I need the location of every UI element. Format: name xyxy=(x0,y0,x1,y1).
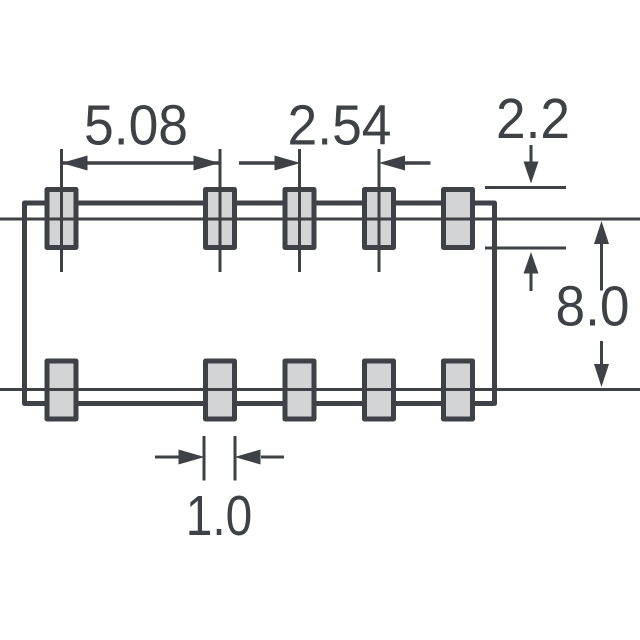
dimension 5.08 line with arrows xyxy=(62,156,221,171)
pad P4 (top row) xyxy=(365,190,394,248)
dimension 1.0 left tick xyxy=(203,436,206,481)
pad P8 (bottom row) xyxy=(285,361,314,419)
dimension 2.2 up arrow xyxy=(524,252,539,291)
pad P10 (bottom row) xyxy=(444,361,473,419)
svg-text:8.0: 8.0 xyxy=(556,275,630,338)
dimension 8.0 down arrow xyxy=(594,341,609,387)
pad P1 (top row) xyxy=(47,190,76,248)
extension line pad P2 center xyxy=(219,149,222,272)
svg-text:1.0: 1.0 xyxy=(186,484,253,547)
dimension 1.0 left arrow xyxy=(155,450,205,465)
svg-text:2.2: 2.2 xyxy=(496,87,570,150)
dimension 2.2 top reference line xyxy=(485,186,566,189)
dimension 2.2 down arrow xyxy=(524,145,539,184)
pad P7 (bottom row) xyxy=(206,361,235,419)
dimension 2.54 left arrow xyxy=(239,156,301,171)
pad P2 (top row) xyxy=(206,190,235,248)
svg-text:2.54: 2.54 xyxy=(288,94,392,157)
dimension 8.0 up arrow xyxy=(594,221,609,291)
extension line pad P3 center xyxy=(298,149,301,272)
dimension 1.0 right tick xyxy=(234,436,237,481)
package body outline xyxy=(25,203,495,404)
pad P9 (bottom row) xyxy=(365,361,394,419)
extension line pad P1 center xyxy=(60,149,63,272)
dimension 2.2 bottom reference line xyxy=(485,247,566,250)
extension line pad P4 center xyxy=(378,149,381,272)
pad P6 (bottom row) xyxy=(47,361,76,419)
dimension 1.0 right arrow xyxy=(235,450,285,465)
svg-text:5.08: 5.08 xyxy=(84,94,188,157)
top row centerline xyxy=(0,218,640,221)
pad P5 (top row) xyxy=(444,190,473,248)
bottom row centerline xyxy=(0,388,640,391)
dimension 2.54 right arrow xyxy=(379,156,431,171)
pad P3 (top row) xyxy=(285,190,314,248)
